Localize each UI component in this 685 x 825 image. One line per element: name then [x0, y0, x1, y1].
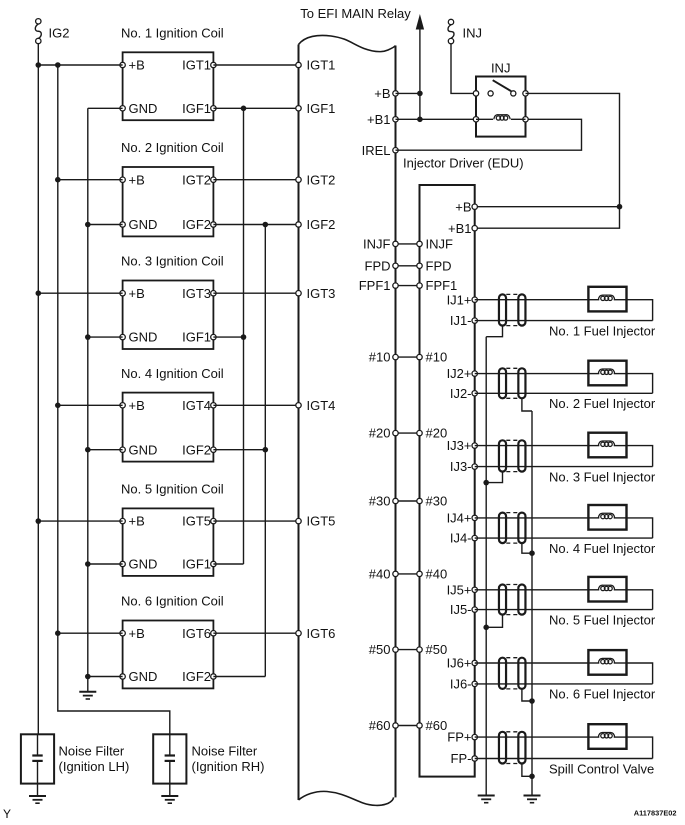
svg-text:INJ: INJ [491, 61, 511, 76]
wire injector 5 loop [627, 590, 653, 610]
injector 6 winding [588, 662, 599, 664]
svg-text:Noise Filter: Noise Filter [59, 744, 125, 759]
junction GND rail / coil 6 [85, 674, 91, 680]
wire #60 ECM to EDU [396, 725, 420, 727]
wire IJ5+ to injector 5 [475, 589, 589, 591]
svg-text:#30: #30 [369, 494, 391, 509]
wire IGF1 to ECM [213, 107, 298, 109]
relay coil terminals [473, 117, 478, 122]
relay INJ box [476, 77, 526, 137]
wire coil 1 GND [88, 107, 123, 109]
svg-text:IGF2: IGF2 [182, 442, 211, 457]
junction GND rail / coil 4 [85, 447, 91, 453]
wire noise filter RH to ground [169, 784, 171, 796]
injector 6 box (No. 6 Fuel Injector) [588, 650, 626, 675]
svg-text:IGT4: IGT4 [307, 398, 336, 413]
injector 2 winding [588, 373, 599, 375]
svg-text:#10: #10 [426, 350, 448, 365]
svg-text:IGT4: IGT4 [182, 398, 211, 413]
svg-text:+B1: +B1 [448, 221, 472, 236]
pin EDU IJ4+ [472, 515, 477, 520]
pin EDU #50 [417, 647, 422, 652]
wire coil 2 +B feed [58, 179, 123, 181]
svg-text:IJ6+: IJ6+ [447, 656, 472, 671]
svg-text:FP-: FP- [451, 751, 472, 766]
node FPD (ECM pin) [393, 263, 398, 268]
svg-text:IG2: IG2 [49, 25, 70, 40]
svg-text:IGF1: IGF1 [182, 101, 211, 116]
svg-text:IGF2: IGF2 [182, 669, 211, 684]
junction GND rail / coil 3 [85, 334, 91, 340]
svg-text:FPD: FPD [365, 258, 391, 273]
ECM band wavy bottom edge [299, 791, 394, 805]
connector capsules (injector 2 harness) [499, 368, 506, 398]
wire IGF2 rail [264, 225, 266, 677]
svg-text:#50: #50 [369, 642, 391, 657]
junction +B rail / coil 6 [55, 630, 61, 636]
svg-text:#20: #20 [369, 426, 391, 441]
relay coil winding [494, 115, 510, 120]
wire coil 6 GND [88, 676, 123, 678]
injector driver EDU box [420, 185, 475, 777]
wire #20 ECM to EDU [396, 432, 420, 434]
wire coil 5 GND [88, 563, 123, 565]
injector 1 box (No. 1 Fuel Injector) [588, 287, 626, 312]
injector 3 winding [588, 445, 599, 447]
svg-text:GND: GND [129, 330, 158, 345]
svg-text:No. 1 Fuel Injector: No. 1 Fuel Injector [549, 323, 656, 338]
node IGF1 (ECM pin) [296, 106, 301, 111]
injector 5 winding [588, 589, 599, 591]
wire injector shield rail B [531, 411, 533, 796]
svg-text:FPF1: FPF1 [359, 278, 391, 293]
svg-text:+B: +B [129, 286, 145, 301]
wire IGT1 to ECM [213, 64, 298, 66]
node IGF2 (ECM pin) [296, 222, 301, 227]
wire injector 1 shield drop [486, 326, 502, 337]
wire IJ6+ to injector 6 [475, 662, 589, 664]
connector capsules (spill control valve harness) [499, 732, 506, 764]
junction +B rail / coil 1 [36, 62, 42, 68]
pin EDU FPD [417, 263, 422, 268]
wire IJ3- return from injector 3 [475, 466, 653, 468]
node IGT4 (ECM pin) [296, 403, 301, 408]
ignition coil T3 (No. 3 Ignition Coil) [123, 281, 214, 350]
node IREL (ECM pin) [393, 148, 398, 153]
node +B (ECM pin) [393, 91, 398, 96]
wire injector 6 shield drop [522, 689, 532, 701]
node FPF1 (ECM pin) [393, 283, 398, 288]
junction relay out / EDU +B [617, 204, 623, 210]
wire coil 6 +B feed [58, 632, 123, 634]
wire injector 3 shield drop [486, 472, 502, 483]
svg-text:IJ1+: IJ1+ [447, 292, 472, 307]
svg-text:Y: Y [3, 807, 11, 821]
ground (noise filter LH) [29, 795, 46, 797]
node INJF (ECM pin) [393, 241, 398, 246]
svg-text:IJ2-: IJ2- [450, 386, 472, 401]
ignition coil T5 (No. 5 Ignition Coil) [123, 508, 214, 576]
wire IGT3 to ECM [213, 292, 298, 294]
node #30 (ECM pin) [393, 498, 398, 503]
pin EDU #30 [417, 498, 422, 503]
wire injector 3 loop [627, 446, 653, 467]
junction shield rail B / injector 6 [529, 698, 535, 704]
svg-text:No. 5 Ignition Coil: No. 5 Ignition Coil [121, 482, 224, 497]
svg-text:IREL: IREL [362, 143, 391, 158]
pin EDU IJ5+ [472, 587, 477, 592]
node #10 (ECM pin) [393, 354, 398, 359]
svg-text:INJF: INJF [363, 237, 391, 252]
svg-text:#10: #10 [369, 350, 391, 365]
svg-text:IGF2: IGF2 [307, 217, 336, 232]
svg-text:IJ4+: IJ4+ [447, 511, 472, 526]
wire relay switch out to EDU +B/+B1 [475, 93, 620, 228]
node #50 (ECM pin) [393, 647, 398, 652]
wire noise filter LH to ground [37, 784, 39, 796]
pin EDU IJ3+ [472, 443, 477, 448]
pin EDU IJ6- [472, 681, 477, 686]
ignition coil T2 (No. 2 Ignition Coil) [123, 167, 214, 236]
pin EDU +B [472, 204, 477, 209]
wire IGT2 to ECM [213, 179, 298, 181]
junction +B rail / coil 5 [36, 518, 42, 524]
junction IGF rail / coil 4 [263, 447, 269, 453]
svg-text:IJ1-: IJ1- [450, 313, 472, 328]
wire #30 ECM to EDU [396, 500, 420, 502]
wire spill control valve loop [627, 737, 653, 758]
svg-text:IGT6: IGT6 [307, 626, 336, 641]
connector capsules (injector 3 harness) [499, 440, 506, 471]
svg-text:No. 2 Fuel Injector: No. 2 Fuel Injector [549, 396, 656, 411]
pin EDU IJ2- [472, 391, 477, 396]
svg-text:IGT1: IGT1 [182, 58, 211, 73]
spill control valve winding [588, 736, 599, 738]
wire IJ3+ to injector 3 [475, 445, 589, 447]
svg-text:#60: #60 [369, 718, 391, 733]
wire IG2 rail (feeds coils 1,3,5 and LH noise filter) [37, 44, 39, 735]
relay coil wire [476, 118, 493, 120]
connector capsules (injector 5 harness) [499, 585, 506, 615]
junction IGF rail / coil 3 [241, 334, 247, 340]
connector INJ (fuse) [448, 19, 453, 24]
pin EDU IJ6+ [472, 660, 477, 665]
injector 4 box (No. 4 Fuel Injector) [588, 505, 626, 530]
svg-text:#40: #40 [369, 567, 391, 582]
junction IGF rail start [263, 222, 269, 228]
junction +B1 / relay feed [417, 117, 423, 123]
svg-text:IGF1: IGF1 [182, 330, 211, 345]
injector 3 box (No. 3 Fuel Injector) [588, 433, 626, 458]
wire injector 2 loop [627, 374, 653, 394]
wire coil 5 +B feed [38, 520, 122, 522]
junction +B rail / coil 2 [55, 177, 61, 183]
ECM band wavy top edge [299, 35, 396, 51]
svg-text:#50: #50 [426, 642, 448, 657]
svg-text:+B: +B [455, 199, 471, 214]
node +B1 (ECM pin) [393, 117, 398, 122]
svg-text:No. 6 Fuel Injector: No. 6 Fuel Injector [549, 687, 656, 702]
connector capsules (injector 6 harness) [499, 658, 506, 689]
svg-text:FPD: FPD [426, 258, 452, 273]
wire coil 3 +B feed [38, 292, 122, 294]
wire IGT5 to ECM [213, 520, 298, 522]
svg-text:To EFI MAIN Relay: To EFI MAIN Relay [300, 6, 411, 21]
wire coil 4 GND [88, 449, 123, 451]
svg-text:A117837E02: A117837E02 [634, 809, 677, 818]
wire injector 6 loop [627, 663, 653, 684]
svg-text:Injector Driver (EDU): Injector Driver (EDU) [403, 156, 524, 171]
svg-text:(Ignition RH): (Ignition RH) [192, 759, 265, 774]
wire injector 1 loop [627, 300, 653, 321]
wire coil 4 IGF to rail [213, 449, 265, 451]
wire IGT4 to ECM [213, 404, 298, 406]
wire coil 3 IGF to rail [213, 336, 243, 338]
svg-text:IGF1: IGF1 [307, 101, 336, 116]
capacitor (noise filter LH) [37, 734, 39, 754]
wire #40 ECM to EDU [396, 573, 420, 575]
pin EDU IJ3- [472, 464, 477, 469]
svg-text:No. 1 Ignition Coil: No. 1 Ignition Coil [121, 26, 224, 41]
wire to EFI MAIN relay (arrow) [419, 27, 421, 119]
wire IJ2- return from injector 2 [475, 392, 653, 394]
pin EDU IJ1- [472, 318, 477, 323]
wire FPD ECM to EDU [396, 265, 420, 267]
connector IG2 [36, 19, 41, 24]
ground (ignition coil GND rail) [79, 691, 96, 693]
svg-text:IJ3-: IJ3- [450, 459, 472, 474]
wire IJ1+ to injector 1 [475, 299, 589, 301]
node IGT6 (ECM pin) [296, 631, 301, 636]
wire IJ4+ to injector 4 [475, 517, 589, 519]
wire EDU +B [475, 206, 620, 208]
wire coil 6 IGF to rail [213, 676, 265, 678]
wire injector 4 shield drop [522, 543, 532, 553]
node #60 (ECM pin) [393, 723, 398, 728]
svg-text:No. 3 Ignition Coil: No. 3 Ignition Coil [121, 254, 224, 269]
svg-text:IGT6: IGT6 [182, 626, 211, 641]
wire coil 5 IGF to rail [213, 563, 243, 565]
svg-text:IJ3+: IJ3+ [447, 438, 472, 453]
node IGT2 (ECM pin) [296, 177, 301, 182]
svg-text:(Ignition LH): (Ignition LH) [59, 759, 130, 774]
ignition coil T6 (No. 6 Ignition Coil) [123, 621, 214, 689]
wire IJ5- return from injector 5 [475, 609, 653, 611]
svg-text:IGT3: IGT3 [182, 286, 211, 301]
svg-text:No. 5 Fuel Injector: No. 5 Fuel Injector [549, 612, 656, 627]
wire IGF2 to ECM [213, 224, 298, 226]
capacitor (noise filter RH) [169, 734, 171, 754]
svg-text:IGF2: IGF2 [182, 217, 211, 232]
svg-text:IJ5-: IJ5- [450, 602, 472, 617]
ignition coil T4 (No. 4 Ignition Coil) [123, 393, 214, 462]
wire injector 5 shield drop [486, 615, 502, 628]
junction shield rail A / injector 5 [483, 625, 489, 631]
ignition coil T1 (No. 1 Ignition Coil) [123, 52, 214, 120]
connector capsules (injector 4 harness) [499, 513, 506, 544]
junction GND rail / coil 2 [85, 222, 91, 228]
svg-text:IJ2+: IJ2+ [447, 366, 472, 381]
junction shield rail A / injector 3 [483, 480, 489, 486]
junction GND rail / coil 5 [85, 561, 91, 567]
svg-text:GND: GND [129, 669, 158, 684]
wire INJF ECM to EDU [396, 243, 420, 245]
svg-text:+B: +B [129, 58, 145, 73]
wire #10 ECM to EDU [396, 356, 420, 358]
svg-text:#20: #20 [426, 426, 448, 441]
svg-text:GND: GND [129, 442, 158, 457]
connector capsules (injector 1 harness) [499, 294, 506, 325]
pin EDU #60 [417, 723, 422, 728]
wire IJ4- return from injector 4 [475, 537, 653, 539]
ECM harness band (right edge) [395, 46, 397, 798]
wire GND rail (coil grounds) [87, 108, 89, 692]
pin EDU +B1 [472, 226, 477, 231]
junction +B rail tap at coil 1 [55, 62, 61, 68]
wire +B rail (feeds coils 2,4,6 and RH noise filter) [58, 65, 170, 734]
wire injector 4 loop [627, 518, 653, 538]
svg-text:+B: +B [129, 398, 145, 413]
junction shield rail B / spill control valve [529, 774, 535, 780]
node #20 (ECM pin) [393, 430, 398, 435]
svg-text:INJ: INJ [463, 26, 483, 41]
pin EDU #10 [417, 354, 422, 359]
svg-text:IJ5+: IJ5+ [447, 582, 472, 597]
noise filter LH box [21, 734, 54, 783]
svg-text:#30: #30 [426, 494, 448, 509]
svg-text:+B: +B [129, 626, 145, 641]
pin EDU #40 [417, 571, 422, 576]
noise filter RH box [153, 734, 186, 783]
pin EDU #20 [417, 430, 422, 435]
wire FP+ to spill control valve [475, 736, 589, 738]
injector 1 winding [588, 299, 599, 301]
svg-text:+B: +B [129, 514, 145, 529]
pin EDU IJ5- [472, 607, 477, 612]
svg-text:IGT5: IGT5 [307, 514, 336, 529]
svg-text:IGT5: IGT5 [182, 514, 211, 529]
svg-text:FP+: FP+ [447, 730, 471, 745]
pin EDU IJ4- [472, 535, 477, 540]
svg-text:+B: +B [374, 86, 390, 101]
svg-text:Noise Filter: Noise Filter [192, 744, 258, 759]
wire injector 2 shield drop [522, 398, 532, 411]
injector 2 box (No. 2 Fuel Injector) [588, 361, 626, 386]
wire INJ fuse to relay switch [451, 44, 476, 94]
svg-text:IGF1: IGF1 [182, 557, 211, 572]
pin EDU IJ1+ [472, 297, 477, 302]
junction +B rail / coil 3 [36, 290, 42, 296]
injector 4 winding [588, 517, 599, 519]
node #40 (ECM pin) [393, 571, 398, 576]
wire coil 2 GND [88, 224, 123, 226]
svg-text:IJ6-: IJ6- [450, 677, 472, 692]
svg-text:No. 2 Ignition Coil: No. 2 Ignition Coil [121, 140, 224, 155]
junction shield rail B / injector 4 [529, 550, 535, 556]
svg-text:No. 4 Ignition Coil: No. 4 Ignition Coil [121, 366, 224, 381]
svg-text:+B1: +B1 [367, 112, 391, 127]
ground (rail A) [478, 795, 495, 797]
svg-text:No. 6 Ignition Coil: No. 6 Ignition Coil [121, 594, 224, 609]
svg-text:INJF: INJF [426, 237, 454, 252]
wire IJ1- return from injector 1 [475, 320, 653, 322]
svg-text:IGT2: IGT2 [307, 172, 336, 187]
wire IREL to INJ relay coil return [396, 119, 582, 150]
wire #50 ECM to EDU [396, 649, 420, 651]
junction IGF rail start [241, 106, 247, 112]
svg-text:#60: #60 [426, 718, 448, 733]
wire coil 1 +B feed [38, 64, 122, 66]
pin EDU FP+ [472, 734, 477, 739]
wire IGF1 rail [243, 108, 245, 564]
ECM harness band (left edge) [298, 45, 300, 801]
wire coil 3 GND [88, 336, 123, 338]
wire injector shield rail A [485, 337, 487, 796]
wire FPF1 ECM to EDU [396, 285, 420, 287]
svg-text:GND: GND [129, 557, 158, 572]
relay switch contacts [473, 91, 478, 96]
pin EDU FPF1 [417, 283, 422, 288]
ground (noise filter RH) [161, 795, 178, 797]
svg-text:GND: GND [129, 217, 158, 232]
svg-text:IGT3: IGT3 [307, 286, 336, 301]
ground (rail B) [524, 795, 541, 797]
wire ECM +B to EFI relay feed [396, 92, 420, 94]
svg-text:FPF1: FPF1 [426, 278, 458, 293]
svg-text:IGT1: IGT1 [307, 58, 336, 73]
svg-text:No. 4 Fuel Injector: No. 4 Fuel Injector [549, 541, 656, 556]
spill control valve box (Spill Control Valve) [588, 724, 626, 749]
wire FP- return from spill control valve [475, 758, 653, 760]
wire spill control valve shield drop [522, 764, 532, 777]
svg-text:GND: GND [129, 101, 158, 116]
node IGT3 (ECM pin) [296, 291, 301, 296]
pin EDU FP- [472, 756, 477, 761]
node IGT5 (ECM pin) [296, 518, 301, 523]
injector 5 box (No. 5 Fuel Injector) [588, 577, 626, 602]
svg-text:Spill Control Valve: Spill Control Valve [549, 761, 654, 776]
svg-text:+B: +B [129, 172, 145, 187]
wire IJ2+ to injector 2 [475, 373, 589, 375]
wire coil 4 +B feed [58, 404, 123, 406]
pin EDU INJF [417, 241, 422, 246]
svg-text:No. 3 Fuel Injector: No. 3 Fuel Injector [549, 469, 656, 484]
svg-text:IJ4-: IJ4- [450, 531, 472, 546]
junction +B / relay feed [417, 91, 423, 97]
node IGT1 (ECM pin) [296, 62, 301, 67]
wire IJ6- return from injector 6 [475, 683, 653, 685]
wire ECM +B1 to INJ relay coil [396, 118, 477, 120]
svg-text:IGT2: IGT2 [182, 172, 211, 187]
wire IGT6 to ECM [213, 632, 298, 634]
svg-text:#40: #40 [426, 567, 448, 582]
junction +B rail / coil 4 [55, 403, 61, 409]
pin EDU IJ2+ [472, 371, 477, 376]
relay switch blade [493, 80, 512, 91]
